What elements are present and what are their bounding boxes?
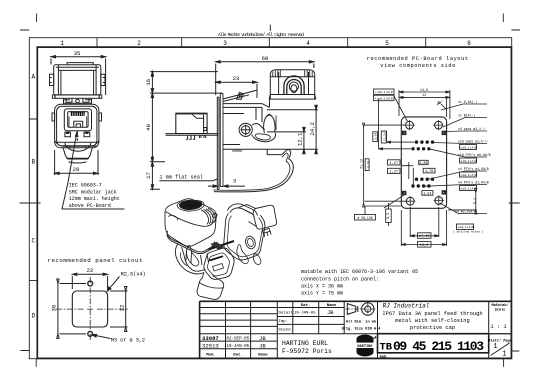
svg-text:1,78: 1,78: [425, 170, 433, 174]
svg-text:JB: JB: [327, 310, 334, 316]
svg-text:C: C: [31, 238, 35, 245]
svg-text:3: 3: [223, 40, 227, 47]
svg-text:1 mm flat seal: 1 mm flat seal: [159, 175, 203, 181]
dims 12,1 / 24,2 / 3: [208, 105, 318, 187]
svg-text:5,08: 5,08: [375, 133, 378, 140]
iso cap box: [165, 199, 216, 247]
svg-text:A: A: [31, 74, 35, 81]
svg-text:09 45 215 1103: 09 45 215 1103: [393, 339, 484, 354]
HARTING logo: [356, 335, 377, 357]
body bottom feet: [57, 142, 97, 151]
svg-text:x16 pads ø1,5⁽¹⁾: x16 pads ø1,5⁽¹⁾: [458, 140, 489, 144]
svg-text:40: 40: [145, 123, 152, 130]
revision rows text: [202, 335, 266, 350]
svg-text:x4 pads ø2,1⁽²⁾: x4 pads ø2,1⁽²⁾: [458, 127, 487, 131]
iso left wing slots: [187, 245, 199, 266]
svg-text:8,89: 8,89: [419, 162, 427, 166]
approval rows: [279, 310, 335, 332]
svg-text:metal with self-closing: metal with self-closing: [395, 318, 469, 324]
svg-text:32513: 32513: [202, 342, 219, 349]
svg-text:2,54: 2,54: [423, 192, 431, 196]
svg-text:F-95972 Poris: F-95972 Poris: [282, 348, 332, 355]
svg-text:above PC-Board: above PC-Board: [69, 203, 111, 209]
svg-text:2: 2: [137, 40, 141, 47]
bottom dims: [401, 207, 446, 247]
mounting holes: [406, 121, 414, 129]
right 5,1 dim: [448, 189, 477, 214]
left dim chain 16/40/17: [151, 72, 153, 190]
svg-text:⌖|ø0,1|A|B: ⌖|ø0,1|A|B: [375, 96, 393, 100]
svg-text:x4 PTH's ø1,6A/B: x4 PTH's ø1,6A/B: [458, 167, 489, 171]
svg-text:HARTING: HARTING: [357, 345, 372, 349]
revision table grid: [200, 308, 512, 349]
cutout square: [72, 291, 107, 327]
iso jack slab: [253, 205, 277, 229]
right leader labels: [424, 104, 487, 214]
svg-text:8,5: 8,5: [387, 213, 391, 219]
neck with hinge circle: [64, 98, 92, 104]
pcb outline: [401, 117, 446, 208]
zone band row dividers (left): [29, 119, 37, 280]
RJ45 contacts: [71, 112, 84, 116]
svg-text:24,2: 24,2: [309, 122, 316, 135]
svg-text:HARTING EURL: HARTING EURL: [282, 340, 328, 347]
middle section grid: [277, 301, 344, 333]
svg-text:1: 1: [502, 351, 506, 359]
svg-text:1 : 1: 1 : 1: [490, 324, 506, 330]
svg-text:Mod.: Mod.: [206, 353, 216, 358]
svg-text:12mm maxi. height: 12mm maxi. height: [69, 196, 120, 202]
dim 22 top: [72, 273, 107, 289]
iso cap top face: [166, 212, 216, 227]
svg-text:4: 4: [306, 40, 310, 47]
svg-text:Maßstab/: Maßstab/: [490, 303, 509, 308]
svg-text:axis X = 36 mm: axis X = 36 mm: [301, 283, 343, 289]
svg-text:22: 22: [118, 305, 125, 312]
R2,5 leader: [107, 277, 119, 292]
iso boss oval: [244, 235, 257, 250]
svg-text:30: 30: [50, 304, 57, 311]
svg-text:Scale: Scale: [495, 307, 506, 312]
svg-text:19,5: 19,5: [420, 244, 429, 248]
zone band column dividers (top): [97, 38, 426, 47]
dimension 60: [216, 61, 314, 63]
svg-text:19-JAN-05: 19-JAN-05: [294, 312, 316, 316]
open cap swing (beak): [213, 150, 293, 192]
iso housing ridge: [227, 204, 257, 216]
cap side ears: [50, 74, 54, 85]
svg-text:JB: JB: [259, 342, 266, 349]
svg-text:recommended PC-Board layout: recommended PC-Board layout: [367, 56, 469, 62]
svg-text:15,24: 15,24: [383, 132, 386, 141]
svg-text:14,6: 14,6: [420, 89, 428, 93]
note IEC 60603-7 with leader: [69, 183, 120, 209]
svg-text:⌖|ø0,1|A|B: ⌖|ø0,1|A|B: [375, 90, 393, 94]
svg-text:Orig. Size DIN A 4: Orig. Size DIN A 4: [342, 327, 382, 332]
dim 30 left: [57, 279, 86, 338]
svg-text:x1 B1A(-): x1 B1A(-): [458, 114, 475, 118]
svg-text:5: 5: [385, 40, 389, 47]
iso housing frame: [224, 214, 265, 260]
scale column: [488, 301, 490, 358]
svg-text:23: 23: [233, 75, 240, 82]
iso center cavity: [204, 248, 234, 279]
projection symbol: [346, 301, 377, 316]
cap bottom flange: [52, 95, 101, 98]
svg-text:Dat.: Dat.: [301, 304, 311, 308]
svg-text:Sub.: Sub.: [380, 354, 389, 359]
svg-text:D: D: [31, 313, 35, 320]
svg-text:IEC 60603-7: IEC 60603-7: [69, 183, 102, 189]
svg-text:view components side: view components side: [380, 63, 456, 69]
svg-text:matable with IEC 60076-3-106 v: matable with IEC 60076-3-106 variant 05: [301, 269, 418, 275]
svg-text:x1 0,5A(-): x1 0,5A(-): [458, 100, 477, 104]
iso strap tongue: [197, 273, 224, 300]
svg-text:Imp.: Imp.: [279, 320, 289, 324]
svg-text:Name: Name: [258, 354, 268, 358]
svg-text:JB: JB: [259, 335, 266, 342]
svg-text:recommended panel cutout: recommended panel cutout: [48, 257, 144, 264]
RJ45 jack opening: [64, 109, 91, 131]
svg-text:connectors pitch on panel:: connectors pitch on panel:: [301, 276, 379, 282]
svg-text:3: 3: [233, 177, 236, 184]
svg-text:19-JAN-05: 19-JAN-05: [227, 345, 250, 349]
jack pins: [186, 135, 206, 139]
pad dots: [411, 140, 434, 187]
svg-text:SMC modular jack: SMC modular jack: [69, 189, 117, 195]
dimension 23: [216, 81, 257, 83]
protective cap front: [54, 63, 101, 95]
zone letters A-D: [31, 74, 35, 320]
svg-text:Alle Rechte vorbehalten/ All r: Alle Rechte vorbehalten/ All rights rese…: [218, 32, 304, 38]
mid small boxes: [419, 160, 435, 195]
svg-text:31,12: 31,12: [359, 159, 363, 169]
svg-text:17,43: 17,43: [419, 235, 430, 239]
svg-text:⌖|ø0,1|A|B: ⌖|ø0,1|A|B: [459, 159, 477, 163]
contact blocks below jack: [65, 132, 90, 137]
pcb line: [166, 134, 219, 136]
iso hinge spring coil: [204, 210, 211, 224]
svg-text:⌖|ø0,1|A|B: ⌖|ø0,1|A|B: [459, 173, 477, 177]
cap side profile: [269, 70, 316, 99]
svg-text:02-SEP-05: 02-SEP-05: [227, 337, 250, 341]
zone numbers 1-6: [60, 40, 471, 47]
svg-text:Detail.: Detail.: [279, 311, 296, 316]
svg-text:Name: Name: [327, 304, 337, 308]
svg-text:TB: TB: [380, 341, 393, 353]
svg-text:⌖|ø0,1|A|B: ⌖|ø0,1|A|B: [459, 146, 477, 150]
screw and lever: [239, 114, 276, 141]
part number cell heavy box: [378, 334, 489, 353]
panel with seal: [217, 94, 223, 190]
dim 22 right: [110, 287, 128, 332]
scale cells: [488, 303, 512, 344]
svg-text:5,1: 5,1: [474, 198, 478, 204]
svg-text:B: B: [31, 159, 35, 166]
svg-text:12,1: 12,1: [297, 132, 304, 146]
company name: [282, 340, 332, 355]
side view body: [223, 90, 282, 154]
svg-text:Dat.: Dat.: [233, 354, 243, 358]
svg-text:22: 22: [87, 267, 94, 274]
iso left wing: [182, 247, 206, 271]
svg-text:x4 PTH's ø1,64/B: x4 PTH's ø1,64/B: [458, 181, 489, 185]
svg-text:45°: 45°: [437, 101, 443, 106]
svg-text:16: 16: [145, 79, 152, 86]
svg-text:ø 30,136: ø 30,136: [357, 216, 372, 220]
svg-text:2,54: 2,54: [367, 161, 370, 168]
svg-text:1: 1: [493, 343, 497, 351]
M3 leader: [92, 335, 111, 339]
sheet outer frame: [29, 38, 511, 359]
svg-text:Blatt/ Page: Blatt/ Page: [488, 339, 512, 344]
iso cap belt: [167, 231, 214, 252]
symbol box divider: [377, 301, 379, 358]
svg-text:IP67 Data 3A panel feed throug: IP67 Data 3A panel feed through: [382, 311, 482, 317]
top dims: [374, 89, 450, 119]
svg-text:33087: 33087: [202, 335, 219, 342]
svg-text:35: 35: [74, 50, 81, 57]
body outline: [55, 104, 99, 148]
RJ45 latch: [74, 121, 83, 127]
iso right wing slots: [237, 244, 248, 263]
svg-text:1: 1: [60, 40, 64, 47]
left dims: [355, 96, 415, 226]
svg-text:All Dim. in mm: All Dim. in mm: [346, 320, 377, 325]
corner pads: [403, 131, 446, 195]
iso cap dark recess: [179, 201, 202, 210]
svg-text:17: 17: [145, 172, 152, 179]
body side clips: [52, 113, 102, 121]
iso latch bar dark: [209, 241, 235, 250]
svg-text:14: 14: [422, 94, 426, 98]
svg-text:Stand.: Stand.: [279, 328, 293, 333]
svg-text:6: 6: [467, 40, 471, 47]
svg-text:protective cap: protective cap: [410, 325, 455, 331]
description: [382, 303, 482, 331]
svg-text:M3 or ø 3,2: M3 or ø 3,2: [111, 337, 145, 343]
svg-text:R2,5(x4): R2,5(x4): [121, 271, 146, 277]
svg-text:( drilled holes ): ( drilled holes ): [453, 230, 484, 234]
svg-text:1,27: 1,27: [389, 170, 398, 174]
dimension 35: [51, 56, 106, 96]
svg-text:axis Y = 75 mm: axis Y = 75 mm: [301, 291, 343, 297]
drawing area inner frame: [37, 47, 511, 358]
svg-text:⌖|ø0,1|A|B: ⌖|ø0,1|A|B: [456, 225, 474, 229]
center lines: [56, 277, 129, 340]
dimension 28: [55, 150, 98, 175]
iso legs below belt: [186, 250, 209, 266]
holes: [88, 281, 93, 286]
side view jack: [166, 113, 219, 139]
svg-text:RJ Industrial: RJ Industrial: [383, 303, 430, 310]
svg-text:60: 60: [262, 55, 269, 62]
lower cup: [63, 148, 92, 159]
svg-text:1,27: 1,27: [389, 162, 398, 166]
svg-text:x16 PTH's ø0,9A/B: x16 PTH's ø0,9A/B: [458, 153, 491, 157]
svg-text:28: 28: [73, 166, 80, 173]
title block outer border: [200, 301, 512, 358]
